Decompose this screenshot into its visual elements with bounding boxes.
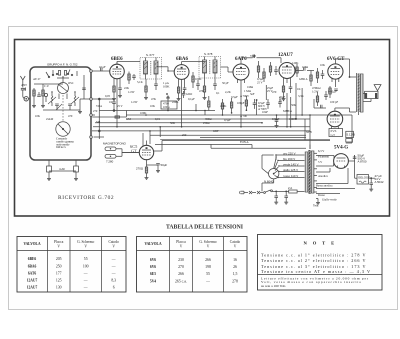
trimmer C3 <box>68 104 72 110</box>
svg-text:470: 470 <box>68 114 73 118</box>
wire PT to 5V4 plate 1 <box>316 156 334 159</box>
potentiometer box P3 <box>161 91 185 109</box>
phase splitter coupling C15 <box>314 99 326 108</box>
svg-text:120K: 120K <box>292 61 299 65</box>
resistor R9 <box>263 68 265 82</box>
svg-text:25 V: 25 V <box>257 81 264 85</box>
capacitor C4 at 6BE6 input <box>101 68 102 72</box>
wire terminal3 horizontal <box>92 111 126 119</box>
band switch contacts SW2 <box>46 70 73 78</box>
svg-text:55: 55 <box>84 257 88 261</box>
wire tuner terminal2 right <box>92 98 114 100</box>
small box S12B <box>346 131 355 137</box>
svg-text:205: 205 <box>56 257 62 261</box>
svg-text:RICEVITORE G.702: RICEVITORE G.702 <box>58 195 114 201</box>
capacitor C9 <box>196 80 200 90</box>
selector tap wire 220V <box>276 151 305 160</box>
vertical drop 12AU7 heater <box>286 93 288 127</box>
svg-text:VBB: VBB <box>250 54 256 58</box>
antenna terminal node A1 <box>24 97 28 101</box>
node left <box>0 0 1 1</box>
resistor R17 bus <box>208 96 210 111</box>
svg-text:0,5μF: 0,5μF <box>224 118 231 122</box>
wire plate feed to 12AU7 <box>280 58 282 63</box>
ground under R2 <box>41 104 45 108</box>
svg-text:1/2W: 1/2W <box>128 90 135 94</box>
svg-text:A 5042: A 5042 <box>375 180 384 184</box>
svg-text:6V6: 6V6 <box>150 258 156 262</box>
resistor R4 beside 6BE6 <box>128 72 130 85</box>
wire PT to 5V4 plate 2 <box>316 163 334 166</box>
filament bus 2 <box>92 130 310 132</box>
wire tuner internal h2 <box>43 109 80 111</box>
svg-text:V: V <box>207 244 210 248</box>
junction dot mains 2 <box>285 191 287 193</box>
vertical riser 6V6-2 <box>305 115 310 149</box>
svg-text:5,1K: 5,1K <box>137 80 144 84</box>
wire tuner to terminal T2 <box>80 98 90 100</box>
cathode resistor R16 6C5 <box>145 164 149 180</box>
capacitor C6 beside R4 <box>132 74 136 80</box>
bus line y123 <box>95 122 262 124</box>
AVC bus <box>99 110 215 112</box>
svg-text:VRA: VRA <box>96 104 103 108</box>
wire tuner internal h1 <box>34 83 63 85</box>
svg-text:230: 230 <box>178 258 184 262</box>
svg-text:S. 677: S. 677 <box>146 53 155 57</box>
IF transformer T2 S.678 <box>199 57 221 79</box>
wire tuner terminal3 right <box>92 114 95 116</box>
svg-text:100: 100 <box>83 264 89 268</box>
svg-text:266: 266 <box>205 258 211 262</box>
capacitor C7 under T1 <box>154 79 158 90</box>
coupling capacitor C13 to 6V6 <box>295 67 314 71</box>
label pot <box>163 102 170 109</box>
svg-text:—: — <box>83 278 88 282</box>
svg-text:2x440: 2x440 <box>46 117 54 121</box>
selector tap wire 145V <box>279 162 305 166</box>
svg-text:ANT: ANT <box>21 83 27 87</box>
stepped wire to power section <box>211 144 306 148</box>
svg-text:2 A: 2 A <box>288 186 292 190</box>
svg-text:25 V: 25 V <box>279 99 286 103</box>
selector tap wire 110V <box>278 174 305 178</box>
tuner unit box GRUPPO A.F. <box>30 67 91 160</box>
svg-text:Bassa anodica: Bassa anodica <box>316 184 333 188</box>
svg-text:50 pF: 50 pF <box>222 81 229 85</box>
capacitor C12 under 12AU7 <box>289 82 293 93</box>
svg-text:6V6-GT: 6V6-GT <box>327 57 345 62</box>
svg-text:giallo 125 V: giallo 125 V <box>283 168 298 172</box>
wire terminal1 to 6BE6 grid <box>92 70 109 72</box>
svg-text:940 kc/s: 940 kc/s <box>56 145 67 149</box>
power transformer PT1 core <box>308 150 310 194</box>
svg-text:GRF: GRF <box>213 129 219 133</box>
svg-text:25 V: 25 V <box>117 104 124 108</box>
resistor R15 at 6V6-2 <box>316 92 318 106</box>
trimmer C2 <box>55 104 59 110</box>
svg-text:177: 177 <box>56 272 62 276</box>
label inside tuner 1 <box>33 77 74 121</box>
svg-text:NFB: NFB <box>306 130 312 134</box>
svg-text:12AU7: 12AU7 <box>27 285 38 289</box>
capacitor C16 at 6V6-2 <box>324 91 328 100</box>
svg-text:GBR A: GBR A <box>299 77 309 81</box>
wire bassa anodica <box>316 189 355 194</box>
svg-text:1/2W: 1/2W <box>131 100 138 104</box>
svg-text:0,01μF: 0,01μF <box>328 90 337 94</box>
wire heater 5V to 5V4 <box>316 168 348 184</box>
bus line y135 <box>150 134 306 136</box>
resistor R5 under T1 <box>144 79 148 100</box>
svg-text:150: 150 <box>21 87 26 91</box>
svg-text:50μF: 50μF <box>161 163 168 167</box>
selector tap wire 160V <box>278 157 305 161</box>
svg-text:220K: 220K <box>172 100 179 104</box>
selector tap wire 125V <box>279 168 305 172</box>
svg-text:—: — <box>111 264 116 268</box>
svg-text:Tensione c.c. al 3° elettrolit: Tensione c.c. al 3° elettrolitico : 173 … <box>261 264 366 269</box>
svg-text:198: 198 <box>205 265 211 269</box>
svg-text:6AT6: 6AT6 <box>28 272 37 276</box>
svg-text:GRUPPO A.F. N. G.702: GRUPPO A.F. N. G.702 <box>47 63 78 67</box>
svg-text:blu 160 V: blu 160 V <box>283 157 295 161</box>
fuse F1 <box>288 186 305 193</box>
secondary tap wires <box>314 153 317 192</box>
terminal tuner out 3 <box>90 114 93 117</box>
resistor R1 in tuner <box>33 88 35 104</box>
svg-text:270Ω: 270Ω <box>136 167 144 171</box>
capacitor C11 <box>274 66 278 75</box>
capacitor C26 10n <box>112 99 116 111</box>
svg-text:V: V <box>57 244 60 248</box>
tube 12AU7 V4 <box>279 63 295 84</box>
svg-text:—: — <box>205 279 210 283</box>
svg-text:Tensione c.c. al 2° elettrolit: Tensione c.c. al 2° elettrolitico : 266 … <box>261 258 366 263</box>
trimmer arrows <box>48 97 79 110</box>
capacitor C14 <box>321 70 325 79</box>
small box below S12B <box>346 139 353 142</box>
wire mains to fuse <box>276 190 289 192</box>
svg-text:OSC: OSC <box>68 81 74 85</box>
svg-text:265 c.a.: 265 c.a. <box>175 279 187 283</box>
bus line y137.6 <box>200 137 306 139</box>
wire between padders <box>49 170 76 172</box>
svg-text:1/2W: 1/2W <box>312 90 319 94</box>
padder trimmer P2 below tuner <box>74 160 79 181</box>
voltage selector S1 <box>269 154 280 179</box>
mechanical link dashed <box>62 95 64 121</box>
svg-text:N O T E: N O T E <box>303 241 336 246</box>
middle voltage table <box>137 237 248 293</box>
tube 6V6-GT V5 <box>328 64 343 83</box>
resistor R12 right of 12AU7 <box>296 64 298 77</box>
schematic frame <box>15 40 390 217</box>
vertical drop 6BA6 heater <box>181 84 183 127</box>
IF transformer T1 S.677 <box>140 58 162 80</box>
svg-text:VALVOLA: VALVOLA <box>144 242 162 246</box>
svg-text:100K: 100K <box>195 77 202 81</box>
svg-text:130: 130 <box>56 285 62 289</box>
tube 5V4-G V8 <box>334 154 349 169</box>
screen bus <box>126 118 310 120</box>
capacitor C23 bus <box>266 99 270 109</box>
svg-text:278: 278 <box>232 279 238 283</box>
svg-text:AE 27: AE 27 <box>33 77 41 81</box>
svg-text:100pF: 100pF <box>237 101 245 105</box>
svg-text:6V6: 6V6 <box>150 265 156 269</box>
label gamma onde <box>56 137 74 150</box>
capacitor C22 bus <box>253 99 257 109</box>
svg-text:1500V: 1500V <box>289 117 298 121</box>
junction dot filter out <box>370 177 372 179</box>
svg-text:6,3 V: 6,3 V <box>318 149 325 153</box>
speaker cone SP1 <box>374 85 381 92</box>
resistor R14 <box>316 68 318 83</box>
tube 6AT6 V3 <box>233 64 249 84</box>
tuner misc parts <box>37 70 86 102</box>
svg-text:125: 125 <box>56 278 62 282</box>
svg-text:5V4: 5V4 <box>150 279 156 283</box>
svg-text:Anodica: Anodica <box>318 174 329 178</box>
speaker magnet box <box>363 91 378 101</box>
tuning drum dial D1 <box>56 122 70 136</box>
svg-text:A 700V: A 700V <box>240 94 250 98</box>
oscillator coil L2 <box>74 92 76 106</box>
svg-text:—: — <box>111 272 116 276</box>
tube 6BA6 V2 <box>174 65 189 84</box>
svg-text:5V4-G: 5V4-G <box>334 146 348 151</box>
svg-text:266: 266 <box>178 272 184 276</box>
svg-text:0,1μF: 0,1μF <box>188 97 195 101</box>
svg-text:0,05: 0,05 <box>105 94 111 98</box>
svg-text:2,2K: 2,2K <box>225 90 232 94</box>
wire 6C5 plate up <box>147 141 163 152</box>
antenna ANT <box>20 76 25 87</box>
svg-text:26: 26 <box>233 265 237 269</box>
resistor R8 right of 6AT6 <box>257 61 259 78</box>
svg-text:MFB/A: MFB/A <box>283 109 293 113</box>
resistor R11 under 12AU7 <box>282 82 286 101</box>
label 6C5 GT <box>130 144 138 154</box>
svg-text:—: — <box>83 272 88 276</box>
line filter capacitor C19 <box>284 191 288 204</box>
phono jack J1 <box>105 147 122 151</box>
svg-text:V: V <box>112 244 115 248</box>
svg-text:A 8700: A 8700 <box>358 160 367 164</box>
wire 6BE6 plate stub <box>116 62 118 65</box>
wire T2 to 6AT6 grid <box>221 67 234 72</box>
line filter capacitor C18 <box>274 191 278 204</box>
svg-text:0,01: 0,01 <box>155 117 161 121</box>
power transformer secondary winding <box>311 151 314 193</box>
left voltage table <box>17 237 126 293</box>
bus line y140 <box>162 140 330 142</box>
wire filter to output cap <box>355 177 375 179</box>
wire jack bus <box>122 149 139 157</box>
ground tuner internal <box>78 110 82 114</box>
tube 6BE6 V1 <box>110 64 125 83</box>
wire T1 secondary to 6BA6 grid <box>156 67 174 72</box>
tube 6V6-GT V6 <box>327 111 343 129</box>
capacitor C17 at 6C5 <box>147 164 161 173</box>
capacitor C5 under 6BE6 <box>118 82 122 98</box>
filter choke box FL1 <box>357 175 371 185</box>
svg-text:0,5μF: 0,5μF <box>231 95 238 99</box>
power transformer primary winding <box>305 152 308 192</box>
svg-text:Giallo-verde: Giallo-verde <box>322 198 337 202</box>
svg-text:A 700V: A 700V <box>258 107 268 111</box>
resistor R19 bus <box>230 98 232 113</box>
resistor R13 grid leak 6V6 <box>310 71 312 87</box>
svg-text:12AU7: 12AU7 <box>27 278 38 282</box>
svg-text:100 pF: 100 pF <box>330 100 339 104</box>
wire 6C5 grid left <box>122 152 139 154</box>
wire power bus right <box>310 112 359 149</box>
svg-text:470K: 470K <box>220 104 227 108</box>
resistor R10 <box>269 62 271 76</box>
wire 5V4 cathode out <box>348 155 354 178</box>
diode load cluster under T2 <box>203 78 217 100</box>
svg-text:6BA6: 6BA6 <box>28 264 37 268</box>
svg-text:oro 220 V: oro 220 V <box>283 151 296 155</box>
svg-text:V: V <box>234 244 237 248</box>
svg-text:rosso 110 V: rosso 110 V <box>283 174 298 178</box>
svg-text:VALVOLA: VALVOLA <box>23 242 41 246</box>
switch SW1 <box>264 190 277 194</box>
tube 6C5-GT V7 <box>139 145 153 164</box>
padder trimmer P1 below tuner <box>47 160 52 181</box>
wire tuner terminal4 right <box>94 136 104 138</box>
vertical drop 6C5 heater <box>143 131 150 146</box>
wire tuner internal v1 <box>79 99 81 110</box>
svg-text:7.280: 7.280 <box>106 160 114 164</box>
resistor R2 in tuner <box>42 84 44 104</box>
svg-text:250: 250 <box>182 133 187 137</box>
svg-text:su rete a 160 Volt.: su rete a 160 Volt. <box>261 284 286 288</box>
wire 6BA6 plate top <box>182 62 205 65</box>
svg-text:—: — <box>111 257 116 261</box>
svg-text:470: 470 <box>272 90 277 94</box>
ground under R1 <box>32 104 36 108</box>
svg-text:100K: 100K <box>140 111 147 115</box>
svg-text:12AU7: 12AU7 <box>278 53 293 58</box>
svg-text:V: V <box>180 244 183 248</box>
mains plug PL1 <box>240 191 263 194</box>
tiny labels scatter <box>21 54 339 144</box>
wire mid drops <box>160 96 205 137</box>
svg-text:100K: 100K <box>163 85 170 89</box>
svg-text:0,5μF: 0,5μF <box>272 117 280 121</box>
svg-text:V: V <box>84 244 87 248</box>
wire 6V6 plate to OT <box>335 59 356 77</box>
svg-text:6: 6 <box>113 285 115 289</box>
cathode network 6V6 <box>329 83 338 98</box>
capacitor C10 top at 6AT6 <box>241 54 281 64</box>
vertical drop 6BE6 heater <box>116 83 118 127</box>
svg-text:Filamenti: Filamenti <box>318 155 329 159</box>
capacitor C25 700V <box>275 115 279 128</box>
svg-text:FON.A: FON.A <box>240 140 250 144</box>
svg-text:verde 145 V: verde 145 V <box>283 162 299 166</box>
svg-text:16: 16 <box>233 258 237 262</box>
svg-text:250Ω: 250Ω <box>203 121 209 125</box>
svg-text:5nF: 5nF <box>250 92 255 96</box>
left column vertical <box>98 98 100 139</box>
terminal tuner out 4 <box>90 136 93 139</box>
electrolytic C24 <box>278 97 282 108</box>
svg-text:6E5: 6E5 <box>150 272 156 276</box>
svg-text:GM: GM <box>126 117 131 121</box>
terminal tuner out 1 <box>90 70 93 73</box>
svg-text:0,1: 0,1 <box>216 91 220 95</box>
centre tap ground <box>313 199 320 208</box>
svg-text:100 μ: 100 μ <box>163 105 170 109</box>
wire selector to mains <box>262 179 274 192</box>
svg-text:6BE6: 6BE6 <box>28 257 37 261</box>
capacitor C8 under 6BA6 <box>183 82 187 93</box>
svg-text:GELOSO: GELOSO <box>358 176 371 180</box>
antenna coupling capacitor C1 <box>21 88 26 99</box>
resistor R6 under 6BA6 <box>177 82 181 101</box>
svg-text:C.V.: C.V. <box>44 84 50 88</box>
svg-text:Tensione c.c. al 1° elettrolit: Tensione c.c. al 1° elettrolitico : 278 … <box>261 253 366 258</box>
filament bus 1 <box>93 126 310 128</box>
resistor R3 under 6BE6 <box>112 82 116 101</box>
svg-text:3,3K: 3,3K <box>298 94 305 98</box>
svg-text:270: 270 <box>178 265 184 269</box>
svg-text:1MΩ: 1MΩ <box>302 65 308 69</box>
output transformer OT1 <box>357 73 363 112</box>
svg-text:4.AF: 4.AF <box>59 167 65 171</box>
phono jack J2 <box>105 155 122 159</box>
svg-text:S.12/B: S.12/B <box>346 133 355 137</box>
label box 6V6 GT <box>329 129 343 138</box>
tuning gang capacitor CV1 <box>57 78 69 99</box>
vertical drop 6AT6 heater <box>240 84 242 127</box>
wire 6BE6 plate top <box>117 62 140 65</box>
wire mid drops right <box>256 83 302 127</box>
svg-text:250: 250 <box>56 264 62 268</box>
svg-text:1MΩ: 1MΩ <box>247 85 253 89</box>
svg-text:TABELLA DELLE TENSIONI: TABELLA DELLE TENSIONI <box>166 225 244 231</box>
junction dot mains 1 <box>275 191 277 193</box>
svg-text:55: 55 <box>206 272 210 276</box>
svg-text:S. 678: S. 678 <box>204 52 213 56</box>
resistor R18 bus <box>221 99 223 115</box>
wire antenna to tuner <box>28 98 30 100</box>
resistor R20 bus <box>245 96 247 110</box>
svg-text:Tela: Tela <box>313 204 319 208</box>
wire 6C5 zone box <box>160 139 330 141</box>
heater winding labels <box>316 149 337 202</box>
filter capacitor C20 50uF <box>353 154 367 164</box>
svg-text:A 700: A 700 <box>240 114 248 118</box>
svg-text:MAGNETOFONO: MAGNETOFONO <box>103 142 127 146</box>
terminal tuner out 2 <box>90 98 93 101</box>
svg-text:—: — <box>83 285 88 289</box>
junction dots bus <box>116 109 311 131</box>
tube inner anodes <box>116 65 336 149</box>
B+ bus <box>126 114 352 116</box>
svg-text:10 pF: 10 pF <box>99 65 106 69</box>
svg-text:SM: SM <box>96 120 101 124</box>
wire 6V6-2 plate to OT <box>335 76 356 112</box>
resistor R7 right of 6BA6 <box>192 72 194 88</box>
oscillator coil L1 <box>51 92 53 106</box>
electrolytic C21 47uF <box>369 174 384 191</box>
svg-text:270: 270 <box>93 109 98 113</box>
